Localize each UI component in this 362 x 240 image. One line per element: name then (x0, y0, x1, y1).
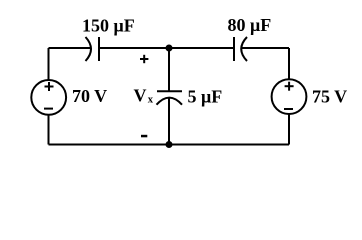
voltage source 70 V (circle) (31, 80, 66, 115)
capacitor 5 uF (straight plate) (157, 90, 182, 92)
voltage source 75 V (circle) (272, 79, 307, 114)
svg-text:150 μF: 150 μF (82, 16, 135, 36)
wire right vertical upper (288, 48, 290, 79)
svg-text:70 V: 70 V (72, 86, 107, 106)
wire top-left horizontal (49, 47, 91, 49)
svg-text:80 μF: 80 μF (228, 15, 272, 35)
wire left vertical lower (48, 115, 50, 145)
plus polarity mark of Vx (140, 55, 148, 63)
wire right vertical lower (288, 114, 290, 145)
junction node top (166, 45, 173, 52)
svg-text:5 μF: 5 μF (188, 86, 223, 106)
capacitor 5 uF (curved plate) (157, 98, 183, 105)
wire top-middle horizontal (99, 47, 234, 49)
svg-text:75 V: 75 V (312, 87, 347, 107)
minus sign of 70 V source (44, 108, 53, 110)
junction node bottom (166, 141, 173, 148)
wire left vertical upper (48, 48, 50, 80)
svg-text:Vx: Vx (134, 86, 154, 106)
minus polarity mark of Vx (141, 135, 147, 138)
capacitor 80 uF (curved plate) (241, 37, 247, 61)
minus sign of 75 V source (284, 108, 293, 110)
capacitor 150 uF (straight plate) (98, 37, 100, 61)
wire middle branch lower (168, 98, 170, 145)
capacitor 80 uF (straight plate) (233, 37, 235, 61)
wire top-right horizontal (242, 47, 290, 49)
capacitor 150 uF (curved plate) (86, 37, 92, 61)
plus sign of 70 V source (45, 82, 54, 91)
plus sign of 75 V source (285, 82, 294, 91)
wire middle branch upper (168, 48, 170, 91)
wire bottom horizontal (49, 144, 290, 146)
